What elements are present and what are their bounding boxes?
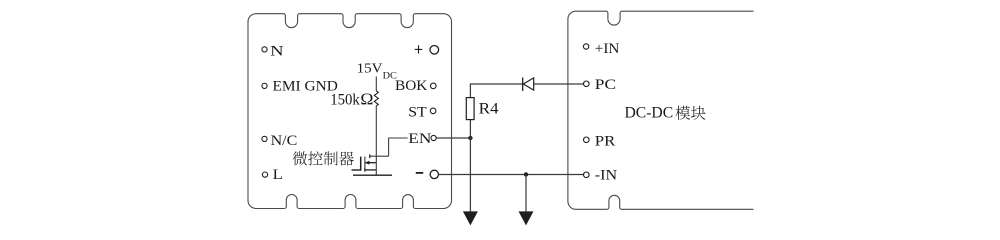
pin N/C xyxy=(262,136,267,141)
svg-text:+IN: +IN xyxy=(595,41,620,57)
junction - rail / ground 2 xyxy=(524,172,528,176)
transistor Q1 body arrow xyxy=(365,161,369,165)
pin +IN xyxy=(583,44,588,49)
wire resistor down to drain node xyxy=(375,106,377,156)
svg-text:BOK: BOK xyxy=(395,77,427,94)
DC-DC module box outline (truncated right) xyxy=(568,11,754,209)
svg-text:-IN: -IN xyxy=(595,167,617,183)
svg-text:N: N xyxy=(270,42,283,59)
EMI filter module box outline xyxy=(248,14,452,209)
svg-text:15V: 15V xyxy=(357,61,383,76)
pin -IN xyxy=(584,172,590,178)
pin L xyxy=(262,172,267,177)
transistor Q1 source stub xyxy=(365,169,376,171)
wire EN elbow to drain node xyxy=(389,138,408,156)
pin PR xyxy=(584,137,590,143)
svg-text:PR: PR xyxy=(595,133,616,149)
resistor R4 body xyxy=(466,98,474,120)
svg-text:PC: PC xyxy=(595,75,616,93)
wire junction down to ground 2 xyxy=(525,175,527,212)
source rail wire xyxy=(353,174,392,176)
transistor Q1 gate bar xyxy=(360,157,362,171)
ground arrow 2 xyxy=(519,211,534,225)
svg-text:EN: EN xyxy=(408,131,432,146)
wire R4 node down to ground xyxy=(469,138,471,211)
svg-text:EMI GND: EMI GND xyxy=(273,79,339,95)
pin PC xyxy=(584,81,590,87)
svg-text:150k: 150k xyxy=(330,91,360,108)
svg-text:DC-DC: DC-DC xyxy=(625,104,674,121)
pin EMI GND xyxy=(262,83,267,88)
wire - rail to -IN xyxy=(439,174,584,176)
transistor Q1 drain/source vertical xyxy=(375,156,377,175)
transistor Q1 channel bar xyxy=(364,157,366,171)
svg-text:R4: R4 xyxy=(479,99,500,117)
transistor Q1 gate lead xyxy=(352,169,361,171)
wire diode to PC xyxy=(534,83,584,85)
label microcontroller 微控制器 xyxy=(293,151,307,165)
svg-text:N/C: N/C xyxy=(271,133,298,149)
diode D1 cathode bar xyxy=(522,78,524,91)
pin N xyxy=(262,47,267,52)
pin + xyxy=(415,45,423,53)
ground arrow 1 xyxy=(463,211,478,225)
wire 15V to resistor xyxy=(375,77,377,92)
wire EN pin to R4 node xyxy=(436,137,470,139)
pin - (minus) xyxy=(416,172,423,174)
junction EN/R4 node xyxy=(468,136,472,140)
diode D1 triangle xyxy=(523,78,533,90)
svg-text:ST: ST xyxy=(408,105,426,120)
wire R4 top xyxy=(470,84,522,138)
resistor 150k zigzag xyxy=(374,91,378,106)
svg-text:L: L xyxy=(273,167,283,183)
svg-text:DC: DC xyxy=(383,71,398,82)
drain node horizontal wire xyxy=(370,155,389,157)
